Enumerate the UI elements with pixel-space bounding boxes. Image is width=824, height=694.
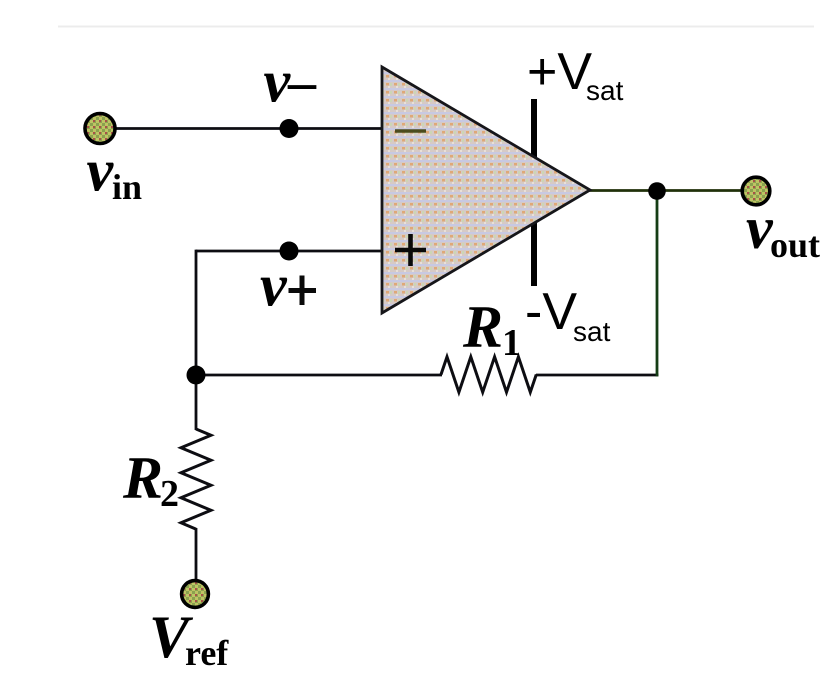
wire: R2 bottom lead to Vref terminal xyxy=(195,528,198,581)
svg-text:v: v xyxy=(260,253,288,319)
op-amp non-inverting input plus symbol xyxy=(395,234,426,266)
node v+ (junction dot on non-inverting input) xyxy=(280,242,299,261)
svg-text:v: v xyxy=(87,138,115,204)
wire: non-inverting input horizontal xyxy=(196,250,382,253)
resistor R1 (horizontal zigzag) xyxy=(441,357,536,392)
wire: R2 top lead xyxy=(195,374,198,430)
node: output junction xyxy=(648,182,666,200)
faint horizontal artifact line at top xyxy=(58,26,814,28)
wire: feedback horizontal left segment to R1 xyxy=(196,374,442,377)
terminal Vref xyxy=(182,581,209,608)
terminal vin xyxy=(85,114,115,144)
wire: feedback horizontal right segment from R1 to corner xyxy=(536,374,658,377)
resistor R2 (vertical zigzag) xyxy=(181,429,211,529)
wire: vin input to op-amp inverting input xyxy=(114,127,382,130)
svg-text:in: in xyxy=(112,167,142,207)
wire: output from op-amp to vout terminal xyxy=(589,189,742,192)
svg-text:sat: sat xyxy=(586,75,624,106)
svg-text:+V: +V xyxy=(527,43,592,101)
node v- (junction dot on inverting input) xyxy=(280,119,299,138)
saturation level bar (vertical line through op-amp output edge) xyxy=(531,99,537,286)
op-amp U1 (comparator triangle) xyxy=(382,67,590,313)
svg-text:2: 2 xyxy=(160,473,179,515)
terminal vout xyxy=(742,177,770,205)
svg-text:-V: -V xyxy=(525,283,577,341)
wire: right vertical feedback up to output node xyxy=(656,190,659,376)
svg-text:R: R xyxy=(462,294,503,360)
wire: left vertical from v+ down to feedback node xyxy=(195,250,198,376)
svg-text:sat: sat xyxy=(573,316,611,347)
svg-text:1: 1 xyxy=(502,322,521,364)
svg-text:–: – xyxy=(287,51,317,113)
svg-text:ref: ref xyxy=(185,633,229,673)
op-amp inverting input minus symbol xyxy=(395,129,426,133)
svg-text:out: out xyxy=(770,225,820,265)
svg-text:R: R xyxy=(122,445,163,511)
node: feedback junction (R1/R2 divider) xyxy=(187,366,206,385)
